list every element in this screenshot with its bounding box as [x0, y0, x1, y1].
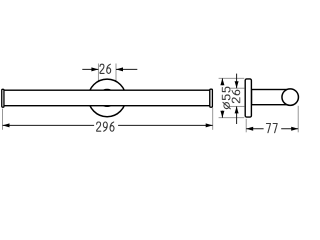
- side view: extension line left of dim 77: [245, 119, 247, 133]
- front view: hub circle O26: [99, 89, 116, 106]
- front view: dim 296 arrow left: [3, 123, 10, 127]
- side view: bar cross-section ball: [282, 89, 299, 106]
- front view: extension line right of dim 296: [212, 108, 214, 130]
- side view: dim 26 top leader: [236, 74, 238, 89]
- front view: left end cap: [2, 89, 4, 107]
- side view: extension line top for 26: [229, 87, 244, 89]
- front view: dim 26 leader left: [82, 68, 98, 70]
- side view: dim 77 arrow left: [246, 127, 253, 131]
- side view: wall plate: [245, 79, 251, 117]
- side view: dim text 26 rotated: [232, 90, 240, 102]
- front view: dim 296 arrow right: [206, 123, 213, 127]
- side view: dim 26 bottom leader: [236, 106, 238, 124]
- front view: dim text 26: [100, 64, 111, 73]
- side view: dim O55 arrow bottom: [220, 111, 224, 118]
- side view: dim 26 top arrow: [235, 81, 239, 88]
- front view: bar: [4, 90, 211, 106]
- front view: extension line left of dim 26: [97, 64, 99, 89]
- side view: extension line bottom for O55: [219, 117, 245, 119]
- front view: dim text 296: [97, 122, 114, 131]
- front view: rosette circle O55: [88, 79, 126, 117]
- side view: dim 77 arrow right: [291, 127, 298, 131]
- side view: dim O55 line: [221, 78, 223, 85]
- front view: dim 26 leader right: [116, 68, 137, 70]
- side view: dim text O55 rotated: [222, 87, 230, 108]
- side view: dim O55 arrow top: [220, 78, 224, 85]
- front view: dim 296 line right segment: [118, 124, 213, 126]
- side view: extension line right of dim 77: [297, 106, 299, 133]
- side view: dim 26 bottom arrow: [235, 106, 239, 113]
- front view: dim 26 arrow right: [116, 67, 123, 71]
- side view: extension line top for O55: [219, 77, 245, 79]
- front view: extension line right of dim 26: [115, 64, 117, 89]
- side view: hub rod: [252, 90, 289, 105]
- front view: dim 26 arrow left: [91, 67, 98, 71]
- side view: dim 77 line right segment: [281, 128, 298, 130]
- side view: dim text 77: [266, 124, 277, 133]
- front view: extension line left of dim 296: [2, 109, 4, 130]
- side view: dim 77 line left segment: [246, 128, 263, 130]
- front view: right end cap: [210, 89, 213, 107]
- front view: dim 296 line left segment: [3, 124, 95, 126]
- side view: extension line bottom for 26: [229, 105, 244, 107]
